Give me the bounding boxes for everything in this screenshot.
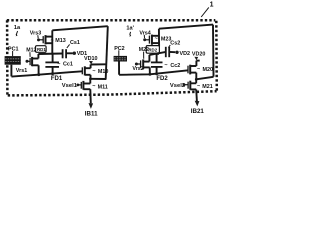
wire PC1 to FD1 (10, 65, 12, 77)
transistor M22 (136, 55, 150, 75)
wire VD10 arrow (89, 61, 93, 65)
svg-text:~: ~ (197, 66, 200, 72)
label ~M10 (92, 69, 108, 76)
node Vsel2 label (170, 83, 185, 89)
svg-text:~: ~ (92, 84, 95, 90)
dotted array border left (6, 20, 9, 95)
svg-text:~: ~ (155, 36, 158, 42)
capacitor Cc1 (45, 54, 59, 74)
svg-text:M21: M21 (202, 84, 213, 90)
svg-text:~: ~ (197, 84, 200, 90)
node junction RD2/mid (157, 52, 159, 54)
svg-text:VD2: VD2 (180, 51, 191, 57)
wire top rail left cell (52, 26, 108, 30)
wire mid rail right cell (149, 52, 165, 55)
svg-text:M12: M12 (26, 47, 36, 53)
svg-text:PC1: PC1 (8, 46, 19, 52)
node Vrs1 terminal dot (26, 60, 29, 63)
node Vsel1 terminal dot (76, 84, 79, 87)
wire PC1 leader (12, 51, 14, 56)
svg-text:Vsel1: Vsel1 (62, 83, 78, 89)
capacitor Cs2 (166, 47, 175, 57)
svg-text:Cs1: Cs1 (70, 40, 80, 46)
node IB21 label (191, 108, 205, 115)
wire M22 leader (143, 52, 145, 59)
node PC1 label (8, 46, 19, 52)
svg-text:Vrs4: Vrs4 (139, 30, 150, 36)
label ~M13 (51, 38, 66, 44)
wire Cs1 leader (67, 44, 70, 48)
label ~M21 (197, 84, 213, 91)
node VD1 terminal dot (73, 52, 76, 55)
label ~Cc1 (57, 61, 73, 67)
wire VD20 feed (196, 60, 199, 62)
wire RD2 stub (157, 54, 159, 55)
wire VD10 feed (91, 63, 106, 65)
svg-text:1a': 1a' (126, 25, 134, 31)
node 1 reference numeral (210, 2, 214, 9)
node Vrs3 terminal dot (37, 38, 40, 41)
node junction M12/FD1 (37, 73, 40, 76)
node Vrs2 terminal dot (135, 63, 138, 66)
node junction M22/FD2 (148, 73, 151, 76)
wire 1a' arrow (129, 32, 132, 35)
node Vsel2 terminal dot (183, 83, 186, 86)
wire IB11 arrow (89, 103, 94, 109)
svg-text:~: ~ (57, 61, 60, 67)
node VD1 label (77, 51, 88, 57)
photoconductor PC2 (114, 56, 127, 62)
transistor M21 (184, 79, 197, 101)
wire VD20 arrow (194, 57, 198, 61)
dotted array border top (7, 19, 216, 22)
svg-text:M13: M13 (55, 38, 66, 44)
node Vrs3 label (30, 31, 41, 37)
wire 1a arrow (16, 31, 18, 35)
wire PC2 to FD2 (118, 62, 120, 75)
wire right edge left cell (106, 26, 108, 79)
wire FD2 rail (119, 70, 188, 75)
svg-text:Vrs3: Vrs3 (30, 31, 41, 37)
node junction output (89, 77, 92, 80)
svg-text:Vsel2: Vsel2 (170, 83, 185, 89)
svg-text:1a: 1a (14, 25, 21, 31)
node junction Cc1/FD1 (51, 72, 54, 75)
wire FD1 rail (11, 71, 82, 76)
svg-text:IB11: IB11 (85, 110, 98, 117)
wire leader for 1 (201, 7, 209, 17)
wire M13 spine (51, 30, 53, 53)
node 1a' label (126, 25, 134, 31)
svg-text:Vrs1: Vrs1 (16, 68, 27, 74)
transistor M11 (78, 79, 91, 103)
svg-text:RD2: RD2 (148, 48, 157, 53)
node IB11 label (85, 110, 98, 117)
dotted array border right (215, 21, 218, 92)
wire M12 leader (29, 52, 31, 57)
node PC2 label (114, 46, 125, 52)
transistor M13 (39, 35, 53, 44)
svg-text:M20: M20 (203, 67, 214, 73)
wire mid rail left cell (38, 53, 62, 56)
node VD2 terminal dot (175, 51, 178, 54)
svg-text:PC2: PC2 (114, 46, 125, 52)
node FD1 label (51, 76, 63, 82)
node VD20 label (192, 52, 206, 58)
wire Vrs3 leader (37, 35, 39, 38)
wire IB21 arrow (195, 101, 200, 107)
svg-text:FD2: FD2 (156, 76, 168, 82)
capacitor Cc2 (151, 53, 163, 73)
node junction Cc2/FD2 (155, 72, 158, 75)
node 1a label (14, 25, 21, 31)
wire output left cell (91, 78, 107, 80)
wire Vrs4 leader (143, 35, 145, 38)
transistor M10 (82, 64, 90, 78)
transistor M20 (188, 61, 196, 80)
node M12 label (26, 47, 36, 53)
svg-text:RD1: RD1 (37, 47, 46, 52)
svg-text:~: ~ (92, 69, 95, 75)
resistor RD1 box (36, 46, 47, 53)
wire PC2 leader (118, 50, 120, 56)
svg-text:~: ~ (164, 63, 167, 69)
node junction spine/mid (51, 52, 53, 54)
node VD10 label (84, 56, 98, 62)
transistor M23 (145, 35, 159, 45)
svg-text:FD1: FD1 (51, 76, 63, 82)
wire Cs2 leader (168, 45, 170, 48)
wire top rail right cell (159, 25, 213, 29)
svg-text:Vrs2: Vrs2 (132, 66, 143, 72)
node FD2 label (156, 76, 168, 82)
node Vrs4 label (139, 30, 150, 36)
label ~M23 (155, 36, 172, 42)
photoconductor PC1 (5, 56, 21, 65)
node Vsel1 label (62, 83, 78, 89)
node Vrs2 label (132, 66, 143, 72)
dotted array border bottom (8, 91, 217, 95)
svg-text:M10: M10 (98, 69, 109, 75)
svg-text:VD20: VD20 (192, 52, 206, 58)
resistor RD2 box (146, 46, 159, 54)
node junction output right (195, 78, 198, 81)
svg-text:1: 1 (210, 2, 214, 9)
svg-text:M11: M11 (98, 84, 108, 90)
svg-text:IB21: IB21 (191, 108, 205, 115)
wire output right cell (196, 77, 213, 80)
node M22 label (139, 47, 149, 53)
svg-text:Cs2: Cs2 (170, 40, 180, 46)
label ~Cc2 (164, 63, 180, 69)
wire right edge right cell (212, 25, 215, 77)
node Vrs4 terminal dot (143, 38, 146, 41)
capacitor Cs1 (63, 49, 73, 58)
transistor M12 (27, 54, 39, 75)
node VD2 label (180, 51, 191, 57)
wire M23 spine (158, 29, 160, 47)
label Cs2 (170, 40, 180, 46)
label ~M20 (197, 66, 213, 73)
label Cs1 (70, 40, 80, 46)
svg-text:Cc1: Cc1 (63, 62, 73, 68)
svg-text:Cc2: Cc2 (170, 63, 180, 69)
node Vrs1 label (16, 68, 27, 74)
label ~M11 (92, 84, 108, 91)
